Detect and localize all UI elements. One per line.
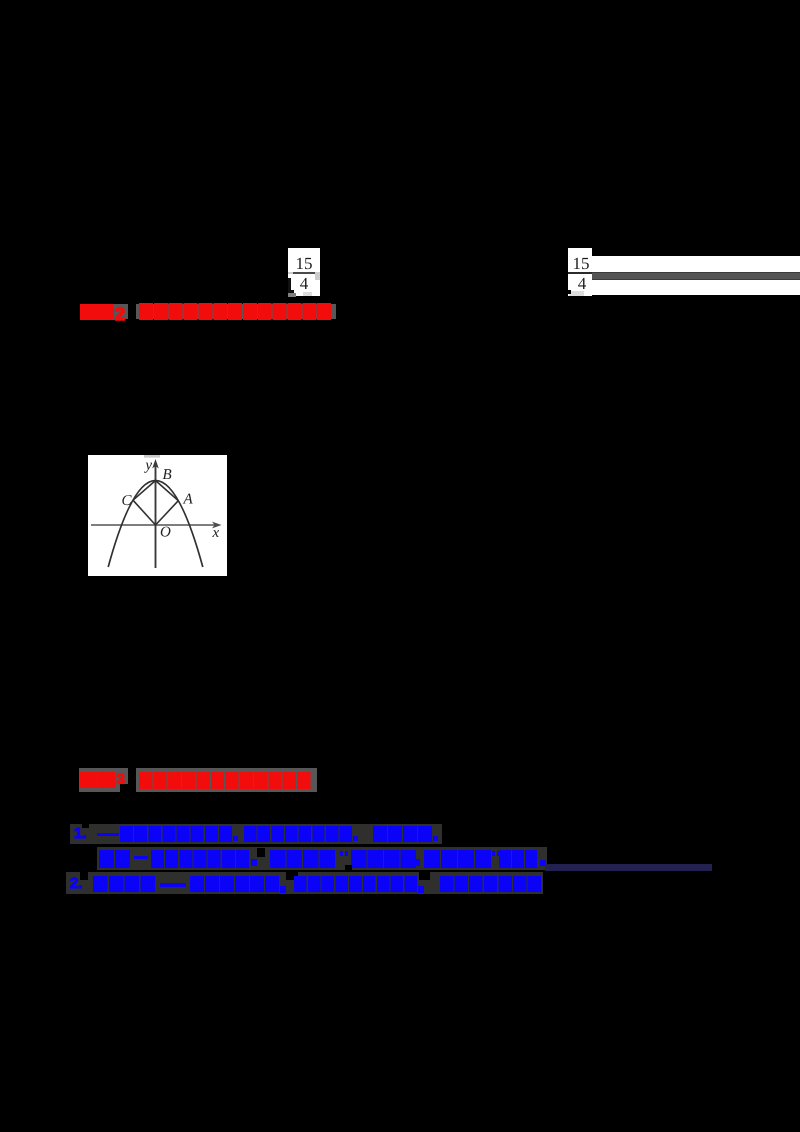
blue line 1 run A1 — [120, 826, 232, 842]
blue line 2 shadow band — [97, 847, 547, 871]
chord B-C — [133, 481, 156, 501]
svg-text:C: C — [122, 493, 133, 509]
fraction 2 numerator 15 — [569, 254, 593, 274]
fraction 2 tiny black mark — [567, 290, 571, 294]
blue line 1 yi dash — [97, 833, 119, 837]
blue line 1 shadow band — [70, 824, 442, 844]
y-axis arrowhead — [152, 459, 159, 469]
blue line 3 number — [70, 875, 83, 892]
blue line 1 period — [433, 836, 438, 841]
blue line 1 run A2 — [244, 826, 352, 842]
blue line 2 comma — [251, 859, 257, 866]
red heading 2 label gray band — [79, 768, 128, 792]
fraction 1 numerator 15 — [288, 254, 320, 274]
blue line 3 black notch b — [286, 872, 298, 880]
fraction 1 stray glyph bottom-left — [288, 278, 291, 292]
segment O-C — [133, 500, 156, 525]
figure: white box with parabola graph — [88, 455, 227, 576]
red heading 2 label band notch — [120, 784, 128, 792]
fraction image 1 (15/4) white box — [288, 248, 320, 296]
segment O-A — [156, 501, 179, 525]
fraction 1 bar light strip — [288, 272, 320, 275]
blue line 2 close quote b — [497, 851, 500, 856]
blue line 3 run A — [93, 876, 155, 893]
blue line 1 comma 2 — [353, 836, 358, 841]
blue line 2 navy blank bar — [545, 864, 712, 871]
chord B-A — [156, 481, 179, 501]
blue line 2 open quote a — [340, 851, 343, 856]
red heading 1 digit 2 — [115, 304, 125, 325]
blue line 2 period — [540, 860, 546, 867]
fraction 2 denominator 4 — [570, 274, 594, 294]
red heading 1 label blocks bg — [80, 304, 116, 320]
blue line 3 black notch a — [80, 872, 88, 880]
blue line 3 dash — [160, 883, 186, 887]
fraction 2 bar — [568, 272, 592, 274]
blue line 1 run B — [373, 826, 432, 842]
svg-text:B: B — [163, 467, 172, 483]
blue line 2 run F — [499, 850, 537, 868]
blue line 3 black notch c — [419, 872, 430, 880]
svg-text:O: O — [160, 525, 171, 541]
x-axis — [91, 524, 218, 526]
red heading 2 phrase blocks — [139, 772, 311, 789]
svg-text:y: y — [143, 458, 152, 474]
x-axis arrowhead — [212, 522, 222, 529]
fraction 1 light gray patch right — [315, 273, 320, 280]
red heading 1 digit gray patch — [114, 304, 128, 319]
blue line 3 shadow band — [66, 872, 543, 895]
red heading 1 phrase gray band — [136, 304, 336, 319]
blue line 1 comma — [233, 836, 238, 841]
fraction 1 light gray patch bottom — [303, 292, 312, 296]
red heading 1 phrase blocks — [139, 303, 332, 321]
fraction image 2 (15/4) narrow white box — [568, 248, 592, 296]
fraction 1 bar — [293, 272, 316, 274]
red heading 2 digit 3 — [117, 771, 125, 788]
blue line 2 open quote b — [345, 851, 348, 856]
y-axis — [155, 463, 157, 568]
red heading 1 label blocks — [80, 304, 116, 320]
blue line 1 number — [74, 825, 87, 842]
blue line 3 comma — [280, 886, 286, 893]
blue line 2 comma 2 — [414, 859, 420, 866]
figure top light dash — [144, 455, 160, 458]
blue line 2 close quote a — [492, 851, 495, 856]
blue line 2 black notch a — [257, 848, 265, 857]
blue line 2 run B — [151, 850, 249, 868]
fraction 2 white band right bottom — [592, 280, 800, 295]
red heading 2 label blocks — [80, 772, 116, 788]
blue line 2 black notch b — [345, 865, 352, 872]
fraction 2 white band right top — [592, 256, 800, 272]
blue line 2 run A — [99, 850, 130, 868]
blue line 2 run E — [424, 850, 491, 868]
svg-text:x: x — [212, 525, 220, 541]
blue line 2 run C — [270, 850, 335, 868]
blue line 3 comma 2 — [418, 886, 424, 893]
blue line 3 run B — [190, 876, 279, 893]
blue line 3 run D — [440, 876, 541, 893]
svg-text:A: A — [183, 492, 194, 508]
blue line 1 black notch — [82, 818, 89, 828]
fraction 2 gray band right — [592, 272, 800, 280]
fraction 1 denominator 4 — [288, 274, 320, 294]
blue line 2 run D — [351, 850, 416, 868]
blue line 2 dash — [134, 856, 148, 859]
blue line 3 run C — [294, 876, 417, 893]
parabola — [108, 481, 203, 568]
red heading 2 phrase gray band — [136, 768, 317, 792]
fraction 2 light gray patch bottom — [569, 291, 584, 296]
fraction 1 gray square bottom-left — [288, 293, 296, 297]
